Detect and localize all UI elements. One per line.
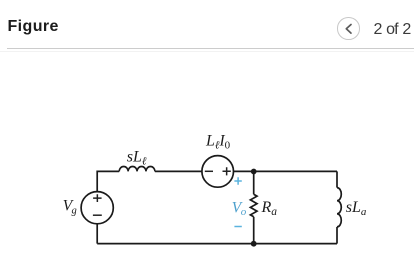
- minus sign inside LlI0 source: [205, 170, 213, 172]
- nav back button circle: [337, 17, 360, 40]
- inductor sLl (4 humps): [119, 166, 155, 171]
- plus sign inside LlI0 source: [223, 167, 231, 175]
- plus sign inside Vg: [93, 167, 231, 215]
- wire: right branch top lead: [336, 171, 338, 187]
- plus sign of Vo polarity (cyan): [234, 177, 241, 226]
- wire: right branch bottom lead: [336, 227, 338, 244]
- minus sign inside Vg: [93, 214, 102, 216]
- svg-text:Ra: Ra: [261, 199, 278, 218]
- voltage source Vg circle: [81, 192, 113, 224]
- svg-text:Vo: Vo: [232, 200, 247, 219]
- resistor Ra zigzag: [250, 194, 257, 217]
- source circle LlI0: [202, 156, 234, 188]
- node: top junction dot: [251, 169, 257, 175]
- wire: bottom rail: [97, 243, 337, 245]
- wire: inductor to source circle: [155, 170, 202, 172]
- wire: source to right branch (through top node): [234, 170, 337, 172]
- wire: middle branch top lead: [253, 171, 255, 194]
- wire: Vg bottom to bottom rail: [96, 224, 98, 243]
- svg-text:sLℓ: sLℓ: [127, 149, 147, 168]
- wire: top-left segment from Vg top to inductor: [97, 171, 119, 191]
- node: bottom junction dot: [251, 241, 257, 247]
- title "Figure": [8, 19, 59, 35]
- minus sign of Vo polarity (cyan): [234, 226, 241, 228]
- svg-text:LℓI0: LℓI0: [205, 133, 231, 152]
- wire: middle branch bottom lead: [253, 217, 255, 244]
- svg-text:sLa: sLa: [346, 199, 367, 218]
- inductor sLa (3 humps, vertical): [337, 188, 341, 227]
- svg-text:Vg: Vg: [63, 198, 77, 217]
- header divider: [7, 48, 414, 49]
- page counter "2 of 2": [374, 22, 411, 38]
